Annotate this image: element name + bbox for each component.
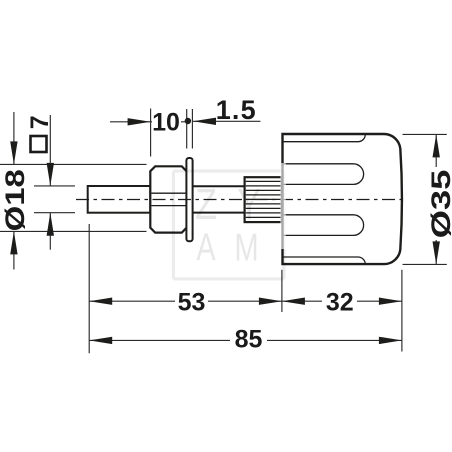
ext line hub-left for dim 10: [150, 109, 152, 157]
knob bottom groove: [283, 257, 366, 264]
svg-text:32: 32: [326, 288, 354, 316]
arrow Ø18 bottom: [10, 231, 17, 254]
dim line 10: [110, 121, 187, 123]
knob upper finger slot: [283, 164, 364, 185]
dim line 1.5 tail: [193, 120, 260, 122]
knurl ribs: [246, 181, 282, 217]
knob top groove: [283, 135, 366, 142]
arrow Ø35 bottom: [433, 241, 440, 264]
spindle between flange and knurl: [193, 185, 245, 187]
arrow 53 left: [89, 298, 112, 305]
Ø35 ext top: [403, 133, 447, 135]
arrow Ø18 top: [10, 141, 17, 164]
arrow 32 left: [282, 298, 305, 305]
Ø35 dim tails: [435, 134, 437, 167]
square7 ext top: [34, 185, 75, 187]
dim line 53-32: [89, 300, 402, 302]
svg-text:M: M: [234, 227, 258, 270]
Ø18 ext bottom: [0, 230, 147, 232]
bottom ext left: [88, 224, 90, 353]
dot end dim10: [185, 118, 191, 124]
hub Ø18 body: [150, 166, 186, 232]
ext line flange-left: [186, 109, 188, 149]
knob Ø35 outline: [283, 134, 402, 264]
arrow square7 top: [47, 163, 54, 186]
centerline: [76, 199, 403, 201]
svg-text:85: 85: [235, 326, 263, 354]
watermark white fade over knob edge: [280, 163, 286, 249]
svg-text:53: 53: [178, 288, 206, 316]
watermark logo box: [173, 171, 284, 279]
svg-text:Ø35: Ø35: [426, 170, 452, 239]
arrow 85 right: [379, 337, 402, 344]
Ø18 ext top: [0, 163, 147, 165]
arrow Ø35 top: [433, 134, 440, 157]
knob lower finger slot: [283, 215, 364, 236]
Ø18 dim tails: [13, 112, 15, 164]
arrow square7 bottom: [47, 213, 54, 236]
hub bore lines: [151, 192, 186, 194]
svg-text:Z: Z: [195, 180, 217, 229]
Ø35 ext bottom: [403, 263, 447, 265]
dim label square7 symbol: [31, 136, 47, 152]
arrow 85 left: [89, 337, 112, 344]
svg-text:Y: Y: [237, 180, 261, 229]
bottom ext right: [401, 270, 403, 352]
svg-text:10: 10: [152, 109, 180, 137]
arrow 32 right: [379, 298, 402, 305]
square spindle shaft left (7mm): [88, 186, 151, 213]
square7 dim tails: [49, 115, 51, 186]
svg-text:7: 7: [26, 115, 54, 129]
bottom ext mid: [281, 270, 283, 312]
knurled collar: [245, 177, 282, 222]
text masks: [152, 112, 357, 350]
arrow dim1.5: [193, 118, 216, 125]
svg-text:A: A: [196, 226, 215, 269]
svg-text:1.5: 1.5: [216, 95, 257, 125]
arrow 53 right: [259, 298, 282, 305]
square7 ext bottom: [34, 212, 75, 214]
ext line flange-right: [191, 109, 193, 149]
flange disc: [186, 158, 192, 241]
svg-text:Ø18: Ø18: [1, 169, 31, 231]
arrow dim10: [128, 118, 151, 125]
dim line 85: [89, 339, 402, 341]
